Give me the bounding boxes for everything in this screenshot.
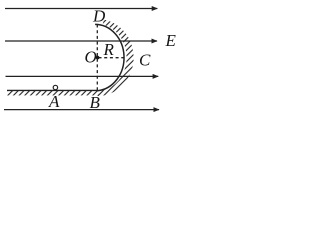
field line 3 (arrow right): [6, 75, 159, 77]
loop outside hatch band: [98, 20, 134, 96]
svg-text:B: B: [90, 93, 101, 112]
svg-text:C: C: [139, 50, 151, 69]
dashed radius O-C (R): [99, 57, 127, 59]
loop track arc B-C-D: [95, 24, 124, 90]
center dot O: [96, 56, 100, 60]
svg-text:E: E: [165, 31, 177, 50]
svg-text:D: D: [92, 6, 106, 25]
svg-text:R: R: [103, 40, 115, 59]
field line 1 (top, arrow right): [5, 8, 157, 10]
field line 2 (arrow right, toward E): [5, 40, 157, 42]
svg-text:A: A: [48, 92, 60, 111]
dashed diameter D-O-B: [96, 25, 98, 91]
ball marker at A: [53, 85, 57, 89]
field line 4 (bottom, arrow right): [4, 109, 159, 111]
ground hatch band: [7, 90, 99, 95]
ground line: [7, 89, 98, 91]
svg-text:O: O: [85, 48, 97, 67]
